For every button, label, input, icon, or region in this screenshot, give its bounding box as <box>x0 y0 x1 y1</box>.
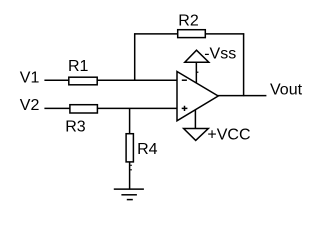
svg-text:R1: R1 <box>68 58 89 75</box>
svg-text:+VCC: +VCC <box>207 127 250 144</box>
wire R2 to feedback right vertical <box>205 33 245 35</box>
wire node B down to R4 <box>129 108 131 134</box>
ground symbol <box>114 189 144 200</box>
wire R3 to op-amp non-inverting input <box>97 107 177 109</box>
resistor R3 <box>70 105 98 113</box>
wire R4 to ground <box>129 162 131 190</box>
power symbol +VCC (down triangle) <box>184 129 209 141</box>
op-amp U1 body <box>177 72 218 121</box>
op-amp inverting input marker (-) <box>182 79 187 81</box>
wire R1 to op-amp inverting input <box>97 79 177 81</box>
wire feedback vertical from node A up to top rail <box>134 33 136 81</box>
resistor R1 <box>69 77 97 85</box>
svg-text:Vout: Vout <box>270 82 303 99</box>
wire op-amp output to Vout <box>218 95 267 97</box>
wire op-amp bottom to VCC symbol <box>194 110 196 130</box>
wire feedback right vertical down to output node <box>243 33 245 96</box>
svg-text:R3: R3 <box>65 119 86 136</box>
op-amp non-inverting input marker (+) <box>182 106 188 111</box>
wire Vss symbol to op-amp top <box>195 62 197 83</box>
wire top rail left segment to R2 <box>134 33 178 35</box>
svg-text:R4: R4 <box>137 141 158 158</box>
svg-text:-Vss: -Vss <box>204 45 236 62</box>
svg-text:V2: V2 <box>20 97 40 114</box>
wire V2 input to R3 <box>44 107 70 109</box>
svg-text:R2: R2 <box>178 13 199 30</box>
pin tick R4 lower <box>130 169 132 170</box>
power symbol -Vss (up triangle) <box>185 50 209 62</box>
pin tick R4 upper <box>130 165 132 166</box>
svg-text:V1: V1 <box>20 70 40 87</box>
wire V1 input to R1 <box>44 79 69 81</box>
pin tick op-amp top power pin <box>197 72 199 73</box>
resistor R4 <box>126 134 133 162</box>
resistor R2 <box>178 30 206 38</box>
